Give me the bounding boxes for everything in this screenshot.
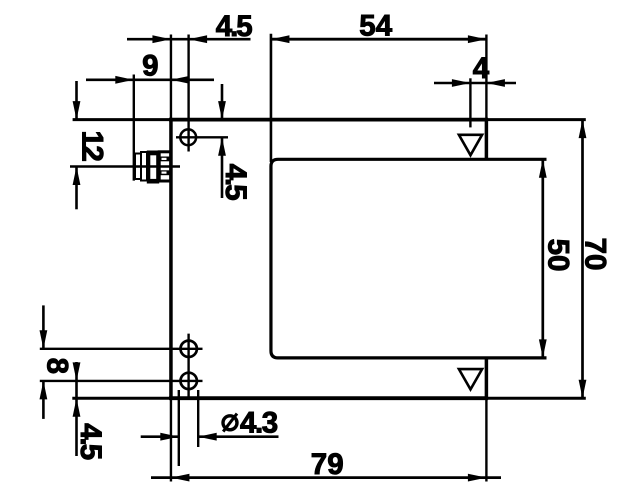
extension line top edge left — [73, 118, 171, 121]
dimension 79 — [151, 448, 501, 482]
optical axis marker top — [459, 135, 482, 155]
svg-text:4.5: 4.5 — [216, 10, 253, 43]
dimension 8 — [40, 305, 74, 419]
svg-text:12: 12 — [75, 130, 108, 161]
svg-text:4: 4 — [473, 52, 490, 85]
connector center line — [70, 165, 180, 167]
dimension 4.5 top — [127, 10, 252, 43]
dimension 12 — [73, 81, 109, 209]
svg-text:4.5: 4.5 — [219, 164, 252, 201]
extension line body right bottom — [485, 398, 487, 481]
svg-text:4.5: 4.5 — [74, 423, 107, 460]
mounting hole bottom lower — [40, 373, 203, 389]
dimension diameter 4.3 — [141, 390, 279, 466]
dimension 50 — [539, 159, 574, 358]
svg-text:79: 79 — [311, 448, 344, 481]
extension line body left top — [170, 35, 172, 120]
hole pair center line — [187, 334, 189, 399]
svg-text:8: 8 — [41, 358, 74, 374]
dimension 70 — [578, 120, 611, 399]
dimension 4.5 at hole — [218, 84, 252, 200]
mounting hole top-left — [176, 35, 228, 152]
svg-text:9: 9 — [142, 50, 158, 83]
extension line window left — [270, 34, 273, 162]
extension line bottom edge left — [72, 397, 171, 400]
extension line top edge right — [486, 118, 586, 121]
svg-text:70: 70 — [578, 238, 611, 271]
extension line body left bottom — [170, 398, 172, 481]
svg-text:54: 54 — [359, 9, 392, 42]
extension line bottom edge right — [486, 397, 586, 400]
dimension 54 — [271, 9, 486, 43]
svg-text:50: 50 — [541, 239, 574, 272]
connector M12 plug — [135, 151, 171, 184]
svg-text:4.3: 4.3 — [240, 407, 278, 440]
dimension 4.5 bottom — [73, 362, 107, 460]
dimension 9 — [86, 50, 214, 84]
lens window — [271, 159, 547, 358]
optical axis marker bottom — [459, 369, 482, 389]
extension line connector left — [133, 75, 135, 181]
dimension 4 — [434, 52, 516, 127]
extension line body right top — [485, 35, 487, 120]
mounting hole bottom upper — [40, 341, 203, 357]
body outline — [169, 118, 488, 400]
